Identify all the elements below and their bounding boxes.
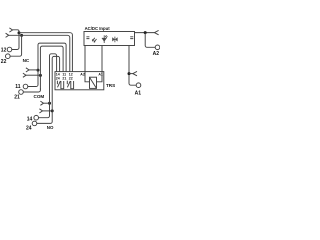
- svg-text:24: 24: [56, 76, 60, 80]
- svg-text:A2: A2: [153, 51, 160, 57]
- terminal arrow 22 plug: [6, 33, 9, 37]
- svg-text:A2: A2: [80, 73, 85, 77]
- terminal circle 14: [34, 115, 39, 120]
- wire A2 node to circle: [145, 33, 155, 48]
- node dot A1: [128, 72, 131, 75]
- node dot 22: [20, 34, 23, 37]
- wire net14: [44, 102, 50, 104]
- node dot A2: [144, 31, 147, 34]
- wire input box to relay pin A1: [101, 46, 103, 72]
- svg-text:NC: NC: [23, 58, 30, 63]
- terminal arrow 12 plug: [9, 28, 12, 32]
- terminal circle 21: [19, 90, 24, 95]
- terminal circle A2: [155, 45, 160, 50]
- relay box TRS: [55, 72, 104, 90]
- svg-text:21: 21: [62, 76, 66, 80]
- polarity mark left =: [86, 37, 89, 39]
- svg-text:22: 22: [69, 76, 73, 80]
- svg-text:COM: COM: [34, 94, 45, 99]
- svg-text:AC/DC Input: AC/DC Input: [85, 26, 111, 31]
- stub to arrow A1: [129, 73, 133, 75]
- node dot 12: [18, 31, 21, 34]
- svg-text:22: 22: [1, 59, 7, 65]
- relay coil K: [90, 77, 97, 88]
- varistor arrows symbol: [92, 38, 96, 43]
- input module box: [84, 32, 135, 46]
- node dot 24: [51, 109, 54, 112]
- terminal circle 12: [7, 47, 12, 52]
- terminal arrow 14 plug: [40, 101, 43, 105]
- terminal circle 11: [23, 84, 28, 89]
- wire arrow1 to node: [13, 30, 20, 33]
- svg-text:11: 11: [15, 84, 21, 90]
- svg-text:A1: A1: [135, 91, 142, 97]
- wire 22 circle to node: [10, 35, 22, 56]
- coil lead A1: [97, 72, 103, 82]
- contact 1 (changeover): [56, 81, 58, 85]
- svg-text:TRS: TRS: [106, 83, 115, 88]
- node dot 21: [39, 74, 42, 77]
- wire input box to relay pin A2: [84, 46, 86, 72]
- contact 2 (changeover): [66, 81, 68, 85]
- terminal circle 24: [32, 121, 37, 126]
- svg-text:24: 24: [26, 126, 32, 132]
- suppressor bowtie symbol: [114, 37, 116, 43]
- terminal arrow 21 plug: [23, 73, 26, 77]
- wire net11: [29, 69, 38, 71]
- node dot 14: [48, 102, 51, 105]
- terminal circle A1: [136, 83, 141, 88]
- wire net21: [26, 74, 40, 76]
- coil lead A2: [85, 72, 90, 82]
- terminal arrow 11 plug: [26, 68, 29, 72]
- terminal arrow A2 plug: [154, 30, 158, 34]
- LED diode symbol (bar, triangle, vertical line, emission arrows): [102, 35, 108, 43]
- wire net24: [43, 110, 53, 112]
- node dot 11: [37, 69, 40, 72]
- svg-text:NO: NO: [47, 125, 54, 130]
- svg-text:12: 12: [1, 48, 7, 54]
- terminal arrow A1 plug: [133, 71, 137, 75]
- wire input box to A1 terminal: [129, 46, 136, 86]
- wire input box to A2 node: [135, 32, 155, 34]
- wire net22 horizontal: [9, 35, 70, 71]
- svg-text:14: 14: [27, 116, 33, 122]
- wire net12 horizontal: [19, 33, 72, 72]
- svg-text:21: 21: [14, 94, 20, 100]
- terminal arrow 24 plug: [39, 109, 42, 113]
- wire 12 circle to node: [12, 33, 19, 50]
- terminal circle 22: [6, 54, 11, 59]
- polarity mark right =: [130, 37, 133, 39]
- wire 11 circle: [28, 83, 38, 87]
- wire 21 circle: [23, 89, 40, 93]
